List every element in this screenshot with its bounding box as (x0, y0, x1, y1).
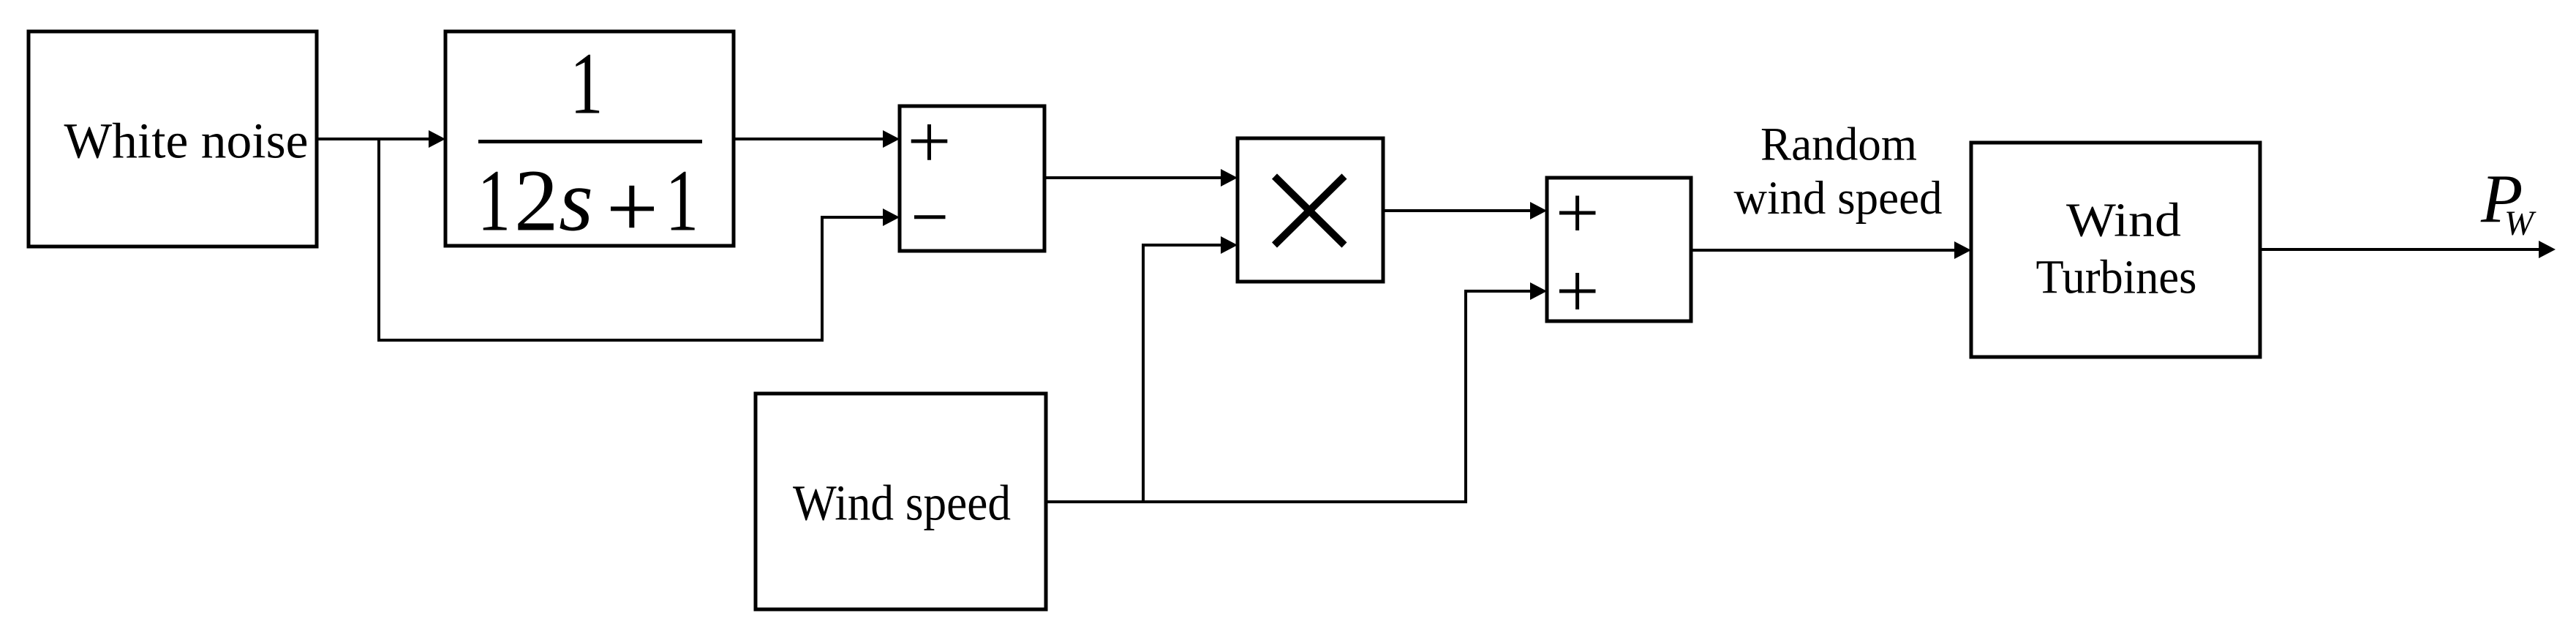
label Random wind speed (1734, 119, 1943, 225)
lower plus sign in Sum2 (1559, 273, 1596, 309)
product block (multiply) (1238, 138, 1383, 282)
block Wind speed (756, 394, 1046, 609)
multiply X symbol (1275, 176, 1345, 245)
wire White noise to Transfer Fcn (317, 130, 445, 148)
upper plus sign in Sum2 (1559, 196, 1596, 231)
svg-text:Wind: Wind (2066, 194, 2181, 247)
wire Wind Turbines to output Pw (2260, 241, 2556, 258)
label Pw output (2480, 162, 2537, 244)
svg-text:White noise: White noise (64, 113, 309, 169)
svg-text:wind speed: wind speed (1734, 172, 1943, 225)
svg-text:Random: Random (1760, 119, 1917, 171)
svg-text:s: s (559, 152, 593, 250)
svg-text:2: 2 (514, 152, 559, 250)
wire Sum1 to Product (1044, 169, 1238, 187)
plus sign in Sum1 (911, 124, 948, 160)
wire Product to Sum2 plus input (1383, 202, 1547, 219)
block Wind Turbines (1971, 143, 2260, 357)
svg-text:1: 1 (478, 152, 511, 250)
wire branch Wind speed to Product lower input (1142, 236, 1238, 503)
svg-text:Wind speed: Wind speed (793, 475, 1011, 531)
sum block Sum2 (1547, 178, 1691, 321)
wire Sum2 to Wind Turbines (1691, 241, 1971, 259)
wire feedback branch from node (518,190) to Sum1 minus input (377, 139, 900, 342)
sum block Sum1 (900, 106, 1044, 251)
block Transfer Fcn 1/(12s+1) (445, 31, 734, 250)
svg-text:1: 1 (666, 152, 698, 250)
minus sign in Sum1 (914, 215, 946, 219)
block White noise (29, 31, 317, 247)
svg-text:W: W (2504, 204, 2537, 243)
wire Transfer Fcn to Sum1 plus input (734, 130, 900, 148)
svg-text:1: 1 (570, 35, 603, 133)
svg-text:Turbines: Turbines (2036, 251, 2197, 304)
wire branch Wind speed to Sum2 lower plus input (1464, 282, 1547, 503)
wire Wind speed trunk (1046, 500, 1467, 503)
